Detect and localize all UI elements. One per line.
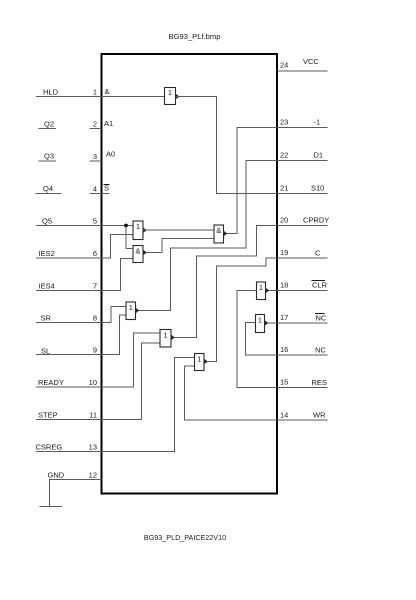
svg-text:&: & — [105, 87, 110, 96]
net WR to GF in2 — [185, 366, 278, 420]
svg-text:23: 23 — [280, 118, 288, 127]
svg-text:A0: A0 — [106, 150, 115, 159]
svg-text:S10: S10 — [311, 184, 324, 193]
svg-text:20: 20 — [280, 216, 288, 225]
svg-text:16: 16 — [280, 345, 288, 354]
pin 12 GND wire — [48, 471, 102, 507]
inverter gate R2 (NC to NC-bar) — [256, 315, 269, 333]
pin 3 Q3 net stub — [39, 152, 57, 162]
svg-text:SR: SR — [41, 314, 52, 323]
pin 1 HLD wire — [36, 88, 165, 97]
svg-text:-1: -1 — [314, 118, 321, 127]
svg-text:24: 24 — [280, 61, 288, 70]
svg-text:21: 21 — [280, 184, 288, 193]
pin 15 RES wire — [277, 378, 328, 388]
pin 19 C wire — [277, 248, 328, 258]
pin 10 READY wire — [36, 333, 160, 387]
svg-text:19: 19 — [280, 248, 288, 257]
svg-text:22: 22 — [280, 151, 288, 160]
buffer gate GF (CSREG/WR) — [195, 354, 208, 371]
pin 2 stub — [90, 120, 102, 129]
pin 21 S10 wire — [277, 184, 328, 194]
svg-text:C: C — [315, 249, 321, 258]
net GD out to pin 22 D1 — [139, 161, 277, 311]
svg-text:1: 1 — [136, 222, 140, 231]
svg-text:10: 10 — [89, 378, 97, 387]
svg-text:Q4: Q4 — [43, 184, 53, 193]
pin 20 CPRDY wire — [277, 216, 329, 226]
pin 9 SL wire — [36, 315, 126, 356]
net R2 out to pin 17 — [268, 322, 277, 324]
svg-text:3: 3 — [93, 152, 97, 161]
svg-text:9: 9 — [93, 346, 97, 355]
net G1 out to pin 21 S10 — [176, 97, 277, 194]
svg-text:BG93_PLD_PAICE22V10: BG93_PLD_PAICE22V10 — [144, 533, 226, 542]
svg-text:A1: A1 — [104, 119, 113, 128]
svg-text:&: & — [135, 247, 140, 256]
svg-text:NC: NC — [316, 314, 327, 323]
svg-text:1: 1 — [163, 331, 167, 340]
svg-text:IES2: IES2 — [39, 249, 55, 258]
buffer gate GE (READY/STEP) — [160, 330, 175, 348]
net Q5 branch to GC in1 — [126, 226, 133, 249]
svg-text:1: 1 — [258, 316, 262, 325]
svg-text:4: 4 — [93, 185, 97, 194]
svg-text:CPRDY: CPRDY — [303, 216, 329, 225]
buffer gate GA (Q5/IES2) — [133, 221, 147, 240]
net GC out to GB in2 — [147, 239, 215, 253]
svg-text:NC: NC — [315, 346, 326, 355]
net R1 out to pin 18 CLR — [269, 290, 277, 292]
svg-text:14: 14 — [280, 411, 288, 420]
buffer gate GD (SR/SL) — [126, 302, 139, 320]
svg-text:12: 12 — [89, 471, 97, 480]
pin 7 IES4 wire — [36, 259, 133, 291]
svg-text:IES4: IES4 — [39, 282, 55, 291]
buffer gate G1 (HLD) — [165, 88, 180, 105]
svg-text:Q3: Q3 — [44, 152, 54, 161]
svg-text:WR: WR — [313, 411, 326, 420]
svg-text:1: 1 — [259, 283, 263, 292]
svg-text:BG93_PLf.bmp: BG93_PLf.bmp — [169, 32, 221, 41]
svg-text:18: 18 — [280, 281, 288, 290]
svg-text:HLD: HLD — [43, 88, 59, 97]
pin 17 NC-bar wire — [277, 313, 328, 323]
svg-text:11: 11 — [89, 411, 97, 420]
svg-text:5: 5 — [93, 217, 97, 226]
net GE out to pin 20 CPRDY — [175, 226, 278, 338]
pin 2 Q2 net stub — [39, 120, 57, 129]
and gate GB — [214, 225, 227, 243]
svg-text:1: 1 — [93, 88, 97, 97]
inverter gate R1 (RES to CLR) — [257, 282, 270, 300]
net GF out to pin 19 C — [208, 258, 278, 362]
PLD chip body U1 — [102, 54, 278, 494]
net GB out to pin 23 -1 — [227, 128, 277, 234]
pin 3 stub — [90, 152, 102, 161]
svg-text:17: 17 — [280, 313, 288, 322]
svg-text:1: 1 — [197, 355, 201, 364]
net GA out to GB in1 — [143, 229, 214, 231]
svg-text:2: 2 — [93, 120, 97, 129]
svg-text:D1: D1 — [314, 151, 324, 160]
svg-text:1: 1 — [168, 88, 172, 97]
svg-text:CSREG: CSREG — [36, 443, 63, 452]
svg-text:Q5: Q5 — [42, 217, 52, 226]
svg-text:6: 6 — [93, 249, 97, 258]
svg-text:Q2: Q2 — [44, 120, 54, 129]
svg-text:7: 7 — [93, 282, 97, 291]
svg-text:SL: SL — [41, 347, 50, 356]
pin 11 STEP wire — [36, 343, 160, 420]
svg-text:15: 15 — [280, 378, 288, 387]
junction dot on Q5 net — [124, 224, 128, 228]
pin 13 CSREG wire — [36, 358, 195, 452]
svg-text:GND: GND — [48, 471, 65, 480]
pin 23 -1 wire — [277, 118, 328, 128]
svg-text:RES: RES — [312, 378, 327, 387]
ground symbol — [40, 506, 63, 508]
net RES to R1 in and pin 15 — [237, 291, 277, 388]
pin 14 WR wire — [277, 411, 328, 421]
and gate GC (Q5/IES4) — [133, 246, 147, 263]
pin 8 SR wire — [36, 307, 126, 323]
pin 18 CLR wire — [277, 281, 328, 291]
svg-text:&: & — [216, 226, 221, 235]
svg-text:STEP: STEP — [38, 411, 58, 420]
svg-text:VCC: VCC — [303, 57, 319, 66]
svg-text:READY: READY — [38, 378, 64, 387]
pin 6 IES2 wire — [36, 235, 133, 259]
pin 4 Q4 net stub — [36, 184, 62, 194]
svg-text:13: 13 — [89, 443, 97, 452]
pin 5 Q5 wire — [36, 217, 133, 226]
svg-text:1: 1 — [129, 303, 133, 312]
pin 4 internal label S with overline — [104, 184, 110, 193]
svg-text:CLR: CLR — [312, 281, 328, 290]
pin 22 D1 wire — [277, 151, 328, 161]
pin 24 VCC wire — [277, 57, 328, 71]
pin 16 NC wire — [277, 345, 328, 355]
svg-text:8: 8 — [93, 314, 97, 323]
pin 4 stub — [90, 185, 110, 194]
net NC to R2 in and pin 16 — [246, 323, 278, 356]
